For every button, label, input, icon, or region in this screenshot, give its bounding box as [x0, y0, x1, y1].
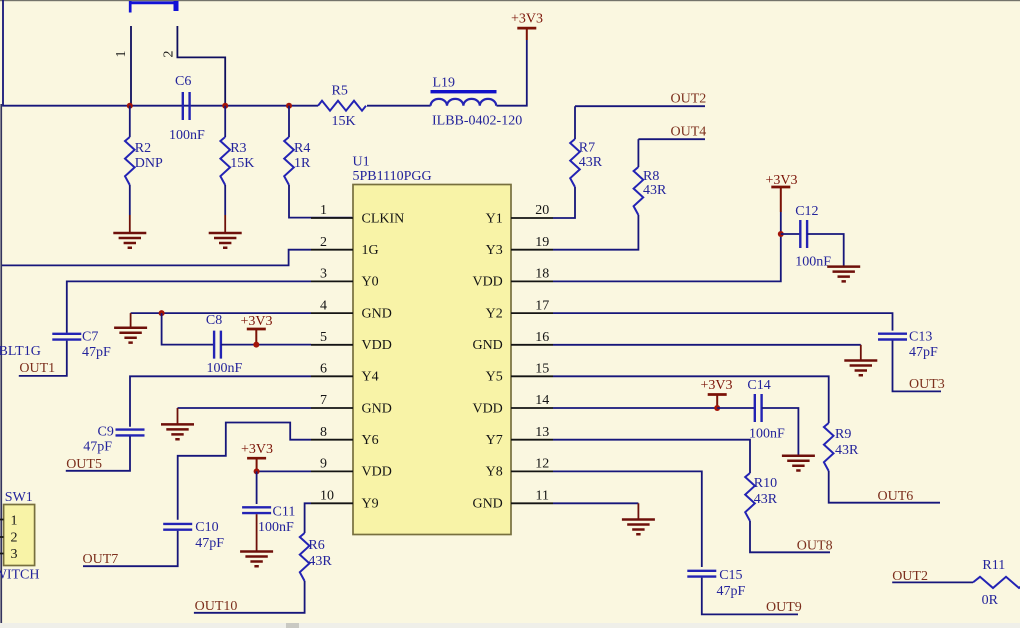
svg-text:OUT5: OUT5 [66, 457, 102, 472]
svg-text:1G: 1G [362, 243, 379, 258]
junction node B [222, 103, 228, 109]
wire pin13 Y7 to R10 [553, 440, 750, 473]
svg-text:43R: 43R [754, 492, 778, 507]
svg-text:Y4: Y4 [362, 370, 379, 385]
junction (pin4/C8) [159, 310, 165, 316]
capacitor C14 [755, 394, 762, 422]
svg-text:OUT10: OUT10 [195, 599, 238, 614]
svg-text:15K: 15K [230, 156, 254, 171]
svg-text:BLT1G: BLT1G [0, 344, 41, 359]
bottom scrollbar thumb [286, 623, 299, 628]
wire pin19 Y3 to R8 [553, 215, 638, 250]
svg-text:100nF: 100nF [258, 520, 294, 535]
svg-text:47pF: 47pF [195, 536, 224, 551]
svg-text:43R: 43R [643, 183, 667, 198]
wire junction down to C8 [162, 313, 214, 345]
svg-text:Y9: Y9 [362, 497, 379, 512]
junction node C [286, 103, 292, 109]
capacitor C12 [800, 220, 807, 248]
svg-text:C14: C14 [747, 378, 770, 393]
ground (R3) [209, 233, 242, 248]
svg-text:4: 4 [320, 298, 327, 313]
wire junction to C14 [717, 407, 755, 409]
svg-text:CLKIN: CLKIN [362, 211, 405, 226]
svg-text:C7: C7 [82, 329, 98, 344]
svg-text:19: 19 [535, 235, 549, 250]
svg-text:11: 11 [536, 489, 549, 504]
svg-text:8: 8 [320, 425, 327, 440]
svg-text:VDD: VDD [362, 465, 392, 480]
wire pin4 GND [131, 312, 311, 314]
svg-text:ILBB-0402-120: ILBB-0402-120 [432, 114, 522, 129]
svg-text:R11: R11 [982, 558, 1005, 573]
wire junction to C12 [781, 233, 801, 235]
wire L19 to +3V3 [497, 40, 527, 106]
svg-text:47pF: 47pF [82, 345, 111, 360]
svg-text:L19: L19 [433, 76, 456, 91]
junction (+3V3/C8) [253, 342, 259, 348]
capacitor C10 [163, 524, 192, 530]
svg-text:2: 2 [320, 235, 327, 250]
ground stem (C11) [256, 514, 258, 550]
capacitor C9 [116, 430, 145, 436]
capacitor C15 [687, 571, 716, 577]
svg-text:16: 16 [535, 330, 549, 345]
svg-text:SW1: SW1 [5, 490, 33, 505]
wire OUT2 to R11 [892, 581, 973, 583]
ground (pin16) [844, 361, 877, 376]
svg-text:2: 2 [11, 530, 18, 545]
capacitor C7 [52, 334, 81, 340]
svg-text:OUT9: OUT9 [766, 600, 802, 615]
wire pin20 Y1 to R7 [553, 106, 575, 218]
resistor R9 [824, 423, 834, 471]
svg-text:C6: C6 [175, 74, 191, 89]
wire C10 to OUT7 [83, 531, 178, 567]
wire pin14 VDD to junction [553, 407, 717, 409]
svg-text:1R: 1R [294, 156, 311, 171]
capacitor C8 [214, 331, 221, 359]
svg-text:1: 1 [114, 51, 129, 58]
wire C8 to pin5 VDD [221, 344, 311, 346]
svg-text:R7: R7 [579, 140, 595, 155]
main clock net wire [3, 0, 318, 106]
svg-text:C11: C11 [273, 504, 296, 519]
+3V3 (C8) [255, 329, 257, 345]
wire pin15 Y5 to R9 [553, 376, 829, 423]
wire pin9 VDD from junction [257, 470, 311, 472]
svg-text:SWITCH: SWITCH [0, 568, 40, 583]
svg-text:DNP: DNP [135, 156, 163, 171]
svg-text:3: 3 [11, 547, 18, 562]
svg-text:47pF: 47pF [717, 584, 746, 599]
svg-text:+3V3: +3V3 [241, 442, 273, 457]
svg-text:OUT3: OUT3 [909, 377, 945, 392]
wire OUT2 line [575, 105, 705, 107]
svg-text:+3V3: +3V3 [240, 314, 272, 329]
wire pin8 Y6 to C10 [178, 423, 311, 520]
svg-text:43R: 43R [835, 443, 859, 458]
resistor R4 [288, 106, 290, 137]
svg-text:18: 18 [535, 267, 549, 282]
pin 1 of connector [130, 26, 132, 106]
svg-text:OUT7: OUT7 [83, 552, 119, 567]
junction (C14) [714, 405, 720, 411]
svg-text:100nF: 100nF [795, 254, 831, 269]
junction (C12) [778, 231, 784, 237]
junction (+3V3/C11) [254, 468, 260, 474]
svg-text:GND: GND [362, 401, 392, 416]
svg-text:OUT4: OUT4 [671, 125, 707, 140]
svg-text:R8: R8 [643, 169, 659, 184]
svg-text:U1: U1 [353, 155, 370, 170]
svg-text:2: 2 [162, 51, 177, 58]
svg-text:5: 5 [320, 330, 327, 345]
svg-text:C12: C12 [795, 204, 818, 219]
svg-text:C15: C15 [719, 568, 742, 583]
wire pin3 Y0 to C7 [67, 281, 311, 332]
ground stem (pin4) [130, 313, 132, 327]
resistor R10 [745, 473, 755, 521]
svg-text:47pF: 47pF [83, 440, 112, 455]
svg-text:Y0: Y0 [362, 275, 379, 290]
svg-text:100nF: 100nF [207, 361, 243, 376]
svg-text:Y7: Y7 [486, 433, 503, 448]
svg-text:R5: R5 [332, 84, 348, 99]
ground (C14) [782, 456, 815, 471]
U1 left pin numbers 1-10 [320, 203, 334, 503]
svg-text:VDD: VDD [362, 338, 392, 353]
resistor R2 [129, 106, 131, 137]
window left border [0, 104, 2, 623]
svg-text:OUT8: OUT8 [797, 538, 833, 553]
wire pin12 Y8 to C15 [553, 471, 702, 567]
svg-text:Y8: Y8 [486, 465, 503, 480]
connector J? body bottom (blue bracket, cut at top) [129, 1, 178, 13]
svg-text:+3V3: +3V3 [700, 378, 732, 393]
wire C14 to ground [762, 408, 799, 455]
U1 right pin numbers 20-11 [535, 203, 549, 503]
U1 right pin names [472, 211, 502, 511]
+3V3 (top) [526, 28, 528, 40]
wire pin7 GND [178, 407, 312, 409]
svg-text:20: 20 [535, 203, 549, 218]
ground (R2) [113, 233, 146, 248]
wire pin11 GND [553, 502, 638, 504]
resistor R3 [224, 106, 226, 137]
wire R10 to OUT8 [750, 521, 830, 552]
ground (pin7) [161, 424, 194, 439]
wire R6 to OUT10 [194, 581, 305, 613]
ground (pin4) [114, 328, 147, 343]
svg-text:6: 6 [320, 362, 327, 377]
svg-text:15K: 15K [332, 114, 356, 129]
svg-text:14: 14 [535, 393, 549, 408]
svg-text:R3: R3 [230, 141, 246, 156]
wire pin16 GND [553, 344, 861, 346]
svg-text:100nF: 100nF [169, 128, 205, 143]
svg-text:Y1: Y1 [486, 211, 503, 226]
wire pin17 Y2 to C13 [553, 313, 893, 331]
capacitor C6 [183, 92, 190, 120]
svg-text:1: 1 [320, 203, 327, 218]
+3V3 (C12) [780, 187, 782, 212]
svg-text:GND: GND [472, 338, 502, 353]
svg-text:100nF: 100nF [749, 427, 785, 442]
resistor R7 [570, 139, 580, 187]
ground (C12) [827, 267, 860, 282]
svg-text:C13: C13 [909, 330, 932, 345]
svg-text:R6: R6 [308, 538, 324, 553]
svg-text:Y3: Y3 [486, 243, 503, 258]
U1 left pin stubs [311, 218, 353, 503]
wire pin18 VDD up to C12 junction [553, 234, 781, 281]
resistor R5 [318, 101, 366, 111]
svg-text:13: 13 [535, 425, 549, 440]
svg-text:R9: R9 [835, 427, 851, 442]
wire C12 to ground [807, 234, 844, 266]
wire R5 to L19 [367, 105, 431, 107]
svg-text:R10: R10 [754, 476, 777, 491]
wire pin2 1G to left edge [2, 250, 311, 266]
ground (C11) [240, 552, 273, 567]
capacitor C11 [242, 507, 271, 513]
svg-text:47pF: 47pF [909, 345, 938, 360]
wire OUT4 line [638, 138, 705, 140]
svg-text:3: 3 [320, 267, 327, 282]
ground stem (pin7) [177, 408, 179, 424]
U1 right pin stubs [511, 218, 553, 503]
ground stem (pin11) [637, 503, 639, 518]
IC U1 [353, 185, 511, 535]
ground (pin11) [622, 520, 655, 535]
svg-text:C9: C9 [98, 425, 114, 440]
svg-text:C8: C8 [206, 313, 222, 328]
svg-text:VDD: VDD [472, 275, 502, 290]
svg-text:15: 15 [535, 362, 549, 377]
svg-text:43R: 43R [308, 554, 332, 569]
svg-text:R2: R2 [135, 141, 151, 156]
svg-text:5PB1110PGG: 5PB1110PGG [353, 169, 432, 184]
svg-text:7: 7 [320, 393, 327, 408]
svg-text:12: 12 [535, 457, 549, 472]
capacitor C13 [878, 334, 907, 340]
pin 2 of connector [177, 26, 225, 106]
wire pin6 Y4 to C9 [130, 376, 311, 427]
+3V3 (C14) [716, 395, 718, 409]
resistor R11 [973, 577, 1020, 588]
svg-text:+3V3: +3V3 [765, 173, 797, 188]
wire C15 to OUT9 [702, 578, 798, 615]
resistor R6 [300, 533, 310, 581]
resistor R8 [634, 167, 644, 215]
svg-text:Y5: Y5 [486, 370, 503, 385]
svg-text:R4: R4 [294, 141, 310, 156]
svg-text:OUT1: OUT1 [19, 361, 55, 376]
+3V3 (C11) [256, 458, 258, 471]
svg-text:C10: C10 [195, 520, 218, 535]
svg-text:GND: GND [472, 497, 502, 512]
svg-text:Y2: Y2 [486, 306, 503, 321]
svg-text:+3V3: +3V3 [511, 12, 543, 27]
wire C7 to OUT1 [19, 341, 67, 376]
bottom scrollbar track [0, 623, 1020, 628]
wire R9 to OUT6 [829, 471, 940, 503]
wire R4 to pin1 [289, 185, 353, 218]
wire C9 to OUT5 [66, 436, 130, 470]
svg-text:GND: GND [362, 306, 392, 321]
SW1 pin stubs [0, 520, 4, 554]
svg-text:VDD: VDD [472, 401, 502, 416]
wire junction down to C11 [256, 471, 258, 504]
svg-text:17: 17 [535, 298, 549, 313]
svg-text:OUT6: OUT6 [878, 489, 914, 504]
U1 left pin names [362, 211, 405, 511]
svg-text:1: 1 [11, 514, 18, 529]
wire C13 to OUT3 [893, 341, 942, 392]
svg-text:43R: 43R [579, 155, 603, 170]
junction node A [127, 103, 133, 109]
ground stem (pin16) [860, 345, 862, 360]
svg-text:OUT2: OUT2 [671, 92, 707, 107]
window top border [0, 0, 1020, 1]
svg-text:9: 9 [320, 457, 327, 472]
wire pin10 Y9 to R6 [305, 503, 311, 533]
svg-text:0R: 0R [982, 593, 999, 608]
svg-text:Y6: Y6 [362, 433, 379, 448]
svg-text:10: 10 [320, 489, 334, 504]
